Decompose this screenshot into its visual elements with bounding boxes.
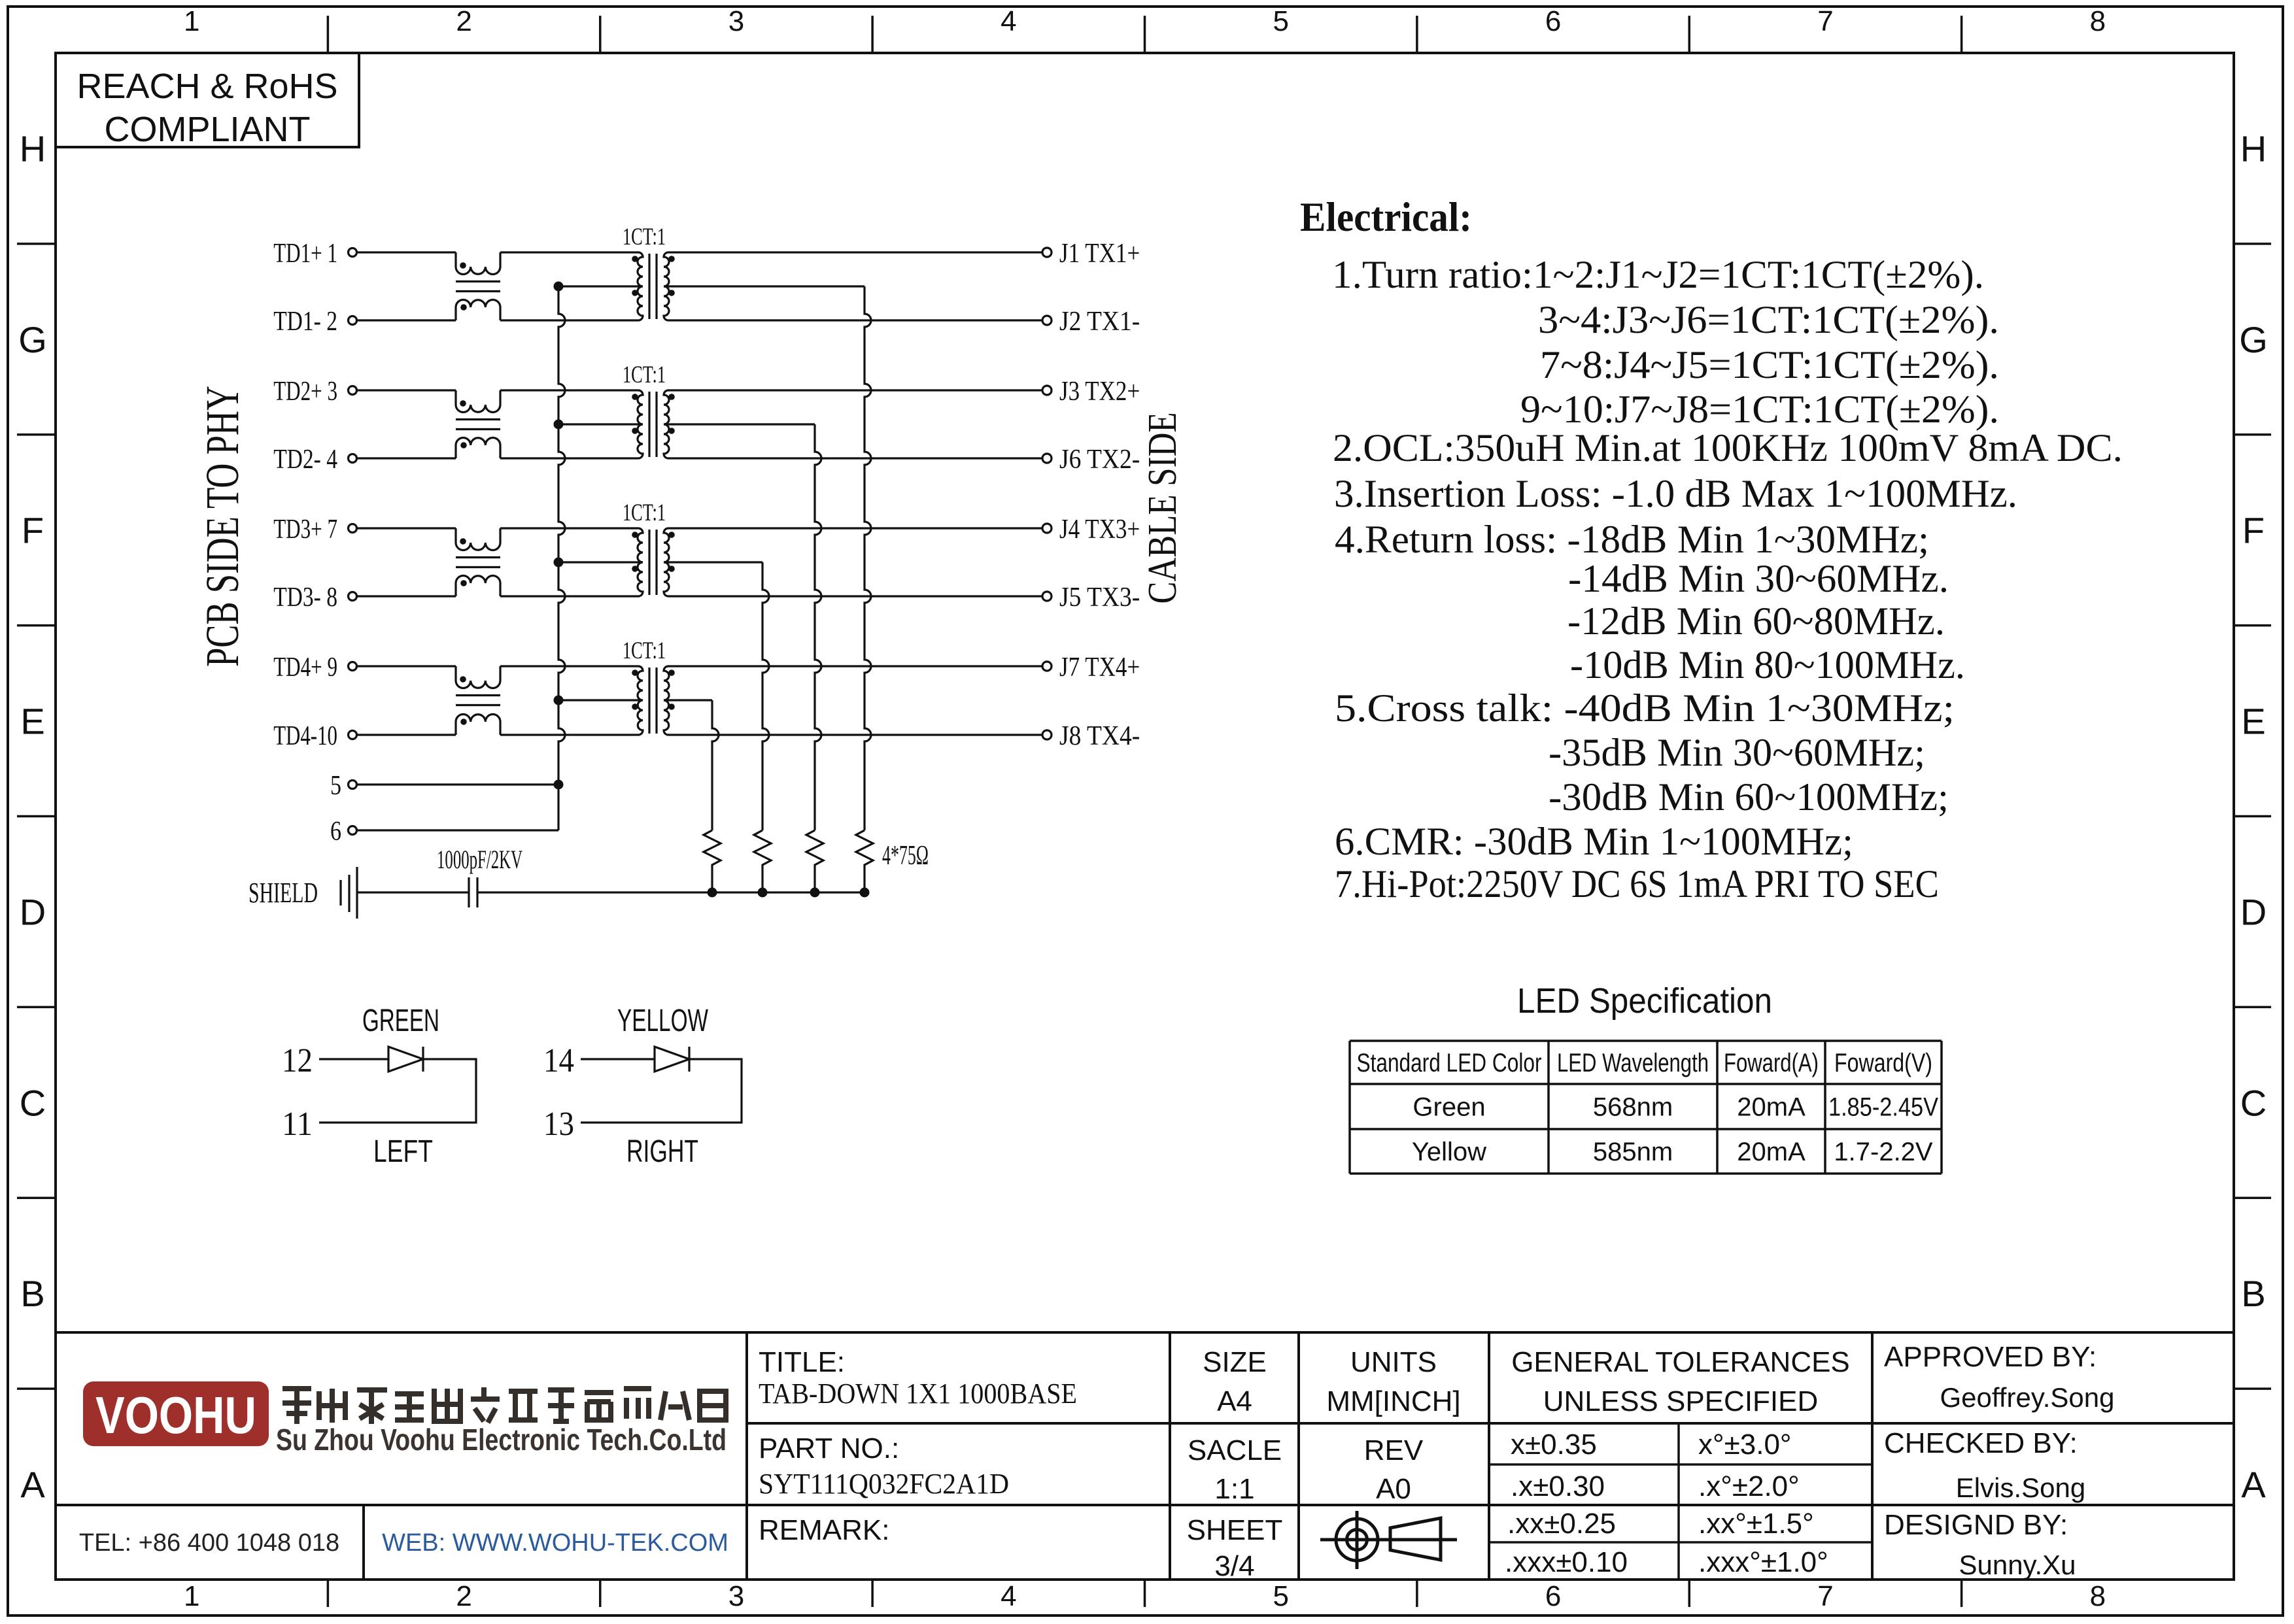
pin J7 TX4+ terminal (1042, 652, 1140, 683)
svg-text:Foward(V): Foward(V) (1834, 1049, 1932, 1077)
pin 6 terminal (330, 817, 357, 847)
resistor R1 75 ohm (856, 830, 873, 892)
svg-text:D: D (20, 891, 46, 932)
wire TD1+ 1 to choke L1 (357, 251, 456, 253)
VOOHU logo (83, 1381, 269, 1446)
wire choke L2 to transformer T2 primary top (500, 389, 638, 391)
svg-text:1: 1 (184, 5, 199, 37)
svg-text:3~4:J3~J6=1CT:1CT(±2%).: 3~4:J3~J6=1CT:1CT(±2%). (1538, 298, 1999, 341)
pin 5 terminal (330, 771, 357, 801)
svg-text:8: 8 (2090, 1580, 2106, 1612)
svg-text:Yellow: Yellow (1412, 1138, 1486, 1166)
SHIELD terminal symbol (248, 867, 357, 919)
label 4*75 ohm (882, 841, 929, 871)
junction dot pin5/bus (554, 780, 564, 790)
svg-text:4*75Ω: 4*75Ω (882, 841, 929, 871)
Electrical notes heading (1300, 194, 1472, 240)
pin J6 TX2- terminal (1042, 445, 1140, 475)
svg-text:1CT:1: 1CT:1 (623, 224, 666, 250)
REMARK cell (759, 1514, 889, 1546)
junction dot T2 primary CT / bus (554, 420, 564, 430)
svg-text:J6 TX2-: J6 TX2- (1059, 445, 1140, 475)
wire TD2- 4 to choke L2 (357, 457, 456, 459)
svg-text:COMPLIANT: COMPLIANT (104, 110, 310, 149)
junction dot T3 primary CT / bus (554, 558, 564, 567)
capacitor C1 1000pF/2KV (437, 845, 522, 907)
wire capacitor C1 to resistor bus (477, 891, 865, 893)
resistor R2 75 ohm (806, 830, 823, 892)
svg-text:7: 7 (1817, 1580, 1833, 1612)
resistor R4 75 ohm (704, 830, 721, 892)
svg-text:F: F (2242, 510, 2265, 551)
svg-text:SIZE: SIZE (1203, 1346, 1267, 1378)
pin TD2- 4 terminal (273, 445, 356, 475)
svg-text:.xx°±1.5°: .xx°±1.5° (1698, 1508, 1814, 1540)
svg-text:1:1: 1:1 (1214, 1473, 1254, 1505)
svg-text:LEFT: LEFT (373, 1134, 433, 1169)
column numbers 1-8 bottom (184, 1580, 2106, 1612)
svg-text:MM[INCH]: MM[INCH] (1326, 1385, 1460, 1417)
svg-text:TD1+ 1: TD1+ 1 (273, 239, 337, 269)
common-mode choke L2 (456, 390, 500, 458)
svg-text:Sunny.Xu: Sunny.Xu (1959, 1549, 2076, 1580)
pin 11 (282, 1106, 313, 1143)
svg-text:20mA: 20mA (1737, 1093, 1806, 1122)
svg-text:TEL: +86 400 1048 018: TEL: +86 400 1048 018 (79, 1529, 339, 1557)
pin J5 TX3- terminal (1042, 583, 1140, 613)
svg-text:E: E (20, 701, 44, 742)
wire T1 secondary center tap (664, 285, 865, 287)
pin J2 TX1- terminal (1042, 307, 1140, 337)
svg-text:TITLE:: TITLE: (759, 1346, 845, 1378)
svg-text:5: 5 (1273, 5, 1288, 37)
svg-text:J3 TX2+: J3 TX2+ (1059, 377, 1140, 407)
svg-text:DESIGND BY:: DESIGND BY: (1884, 1509, 2068, 1541)
wire yellow LED cathode loop to pin 13 (581, 1059, 742, 1123)
svg-text:D: D (2240, 891, 2267, 932)
svg-text:11: 11 (282, 1106, 313, 1143)
wire T2 secondary top to J3 (668, 389, 1042, 391)
TITLE cell (759, 1346, 1077, 1410)
svg-text:3: 3 (728, 5, 744, 37)
pin TD3+ 7 terminal (273, 515, 356, 545)
pin 13 (543, 1106, 574, 1143)
svg-text:WEB: WWW.WOHU-TEK.COM: WEB: WWW.WOHU-TEK.COM (382, 1529, 728, 1557)
company name (Chinese) (282, 1387, 726, 1424)
wire pin 12 to green LED (319, 1058, 388, 1060)
LED yellow label (617, 1004, 708, 1038)
TEL cell (79, 1529, 339, 1557)
pin 12 (282, 1042, 313, 1079)
wire transformer T3 primary center tap to bus (558, 561, 643, 563)
svg-text:4: 4 (1001, 5, 1016, 37)
APPROVED BY cell (1884, 1341, 2114, 1580)
REACH & RoHS COMPLIANT box (56, 53, 359, 149)
svg-text:H: H (20, 128, 46, 169)
svg-text:7.Hi-Pot:2250V DC 6S 1mA PRI T: 7.Hi-Pot:2250V DC 6S 1mA PRI TO SEC (1335, 862, 1939, 905)
junction dot R1/shield bus (860, 888, 870, 898)
svg-text:3: 3 (728, 1580, 744, 1612)
title block grid (56, 1332, 2234, 1580)
svg-text:20mA: 20mA (1737, 1138, 1806, 1166)
wire transformer T4 primary center tap to bus (558, 699, 643, 701)
wire TD4+ 9 to choke L4 (357, 665, 456, 667)
svg-text:CHECKED BY:: CHECKED BY: (1884, 1427, 2078, 1459)
svg-text:1CT:1: 1CT:1 (623, 362, 666, 388)
svg-text:x°±3.0°: x°±3.0° (1698, 1429, 1792, 1461)
svg-text:YELLOW: YELLOW (617, 1004, 708, 1038)
svg-text:1.7-2.2V: 1.7-2.2V (1834, 1138, 1933, 1166)
svg-text:1CT:1: 1CT:1 (623, 499, 666, 526)
svg-text:PART NO.:: PART NO.: (759, 1432, 899, 1464)
svg-text:APPROVED BY:: APPROVED BY: (1884, 1341, 2097, 1373)
svg-text:x±0.35: x±0.35 (1511, 1429, 1597, 1461)
svg-text:.x±0.30: .x±0.30 (1511, 1470, 1605, 1502)
svg-text:J1 TX1+: J1 TX1+ (1059, 239, 1140, 269)
svg-text:SYT111Q032FC2A1D: SYT111Q032FC2A1D (759, 1468, 1009, 1500)
svg-text:F: F (22, 510, 44, 551)
svg-text:A0: A0 (1376, 1473, 1411, 1505)
pin J8 TX4- terminal (1042, 721, 1140, 751)
svg-text:1.Turn ratio:1~2:J1~J2=1CT:1CT: 1.Turn ratio:1~2:J1~J2=1CT:1CT(±2%). (1332, 253, 1984, 296)
wire T3 secondary CT vertical to resistor (762, 562, 769, 830)
svg-text:-35dB Min 30~60MHz;: -35dB Min 30~60MHz; (1549, 731, 1925, 774)
pin 14 (543, 1042, 574, 1079)
LED Specification table (1350, 981, 1942, 1174)
svg-text:TD3+ 7: TD3+ 7 (273, 515, 337, 545)
junction dot R4/shield bus (708, 888, 717, 898)
wire T3 secondary center tap (664, 561, 762, 563)
junction dot T1 primary CT / bus (554, 282, 564, 292)
svg-text:Elvis.Song: Elvis.Song (1956, 1472, 2085, 1503)
wire pin 14 to yellow LED (581, 1058, 655, 1060)
row letters H-A right (2239, 128, 2268, 1505)
UNITS cell (1326, 1346, 1460, 1505)
svg-text:J8 TX4-: J8 TX4- (1059, 721, 1140, 751)
wire T4 secondary top to J7 (668, 665, 1042, 667)
svg-text:5.Cross talk: -40dB Min 1~30MH: 5.Cross talk: -40dB Min 1~30MHz; (1335, 686, 1955, 730)
svg-text:J7 TX4+: J7 TX4+ (1059, 652, 1140, 683)
svg-text:Green: Green (1412, 1093, 1485, 1122)
wire T1 secondary top to J1 (668, 251, 1042, 253)
row ticks left/right (17, 244, 2271, 1389)
svg-text:A4: A4 (1217, 1385, 1252, 1417)
svg-text:Electrical:: Electrical: (1300, 194, 1472, 240)
svg-text:J4 TX3+: J4 TX3+ (1059, 515, 1140, 545)
svg-text:6: 6 (330, 817, 341, 847)
wire T2 secondary CT vertical to resistor (815, 424, 821, 830)
junction dot T4 primary CT / bus (554, 696, 564, 705)
pin TD4-10 terminal (273, 721, 356, 751)
svg-text:B: B (20, 1273, 44, 1314)
svg-text:9~10:J7~J8=1CT:1CT(±2%).: 9~10:J7~J8=1CT:1CT(±2%). (1520, 388, 1999, 431)
transformer T4 1CT:1 (623, 637, 675, 735)
svg-text:.xxx±0.10: .xxx±0.10 (1505, 1546, 1628, 1578)
svg-text:H: H (2240, 128, 2267, 169)
wire TD1- 2 to choke L1 (357, 319, 456, 321)
wire T1 secondary CT vertical to resistor (865, 286, 871, 830)
pin J1 TX1+ terminal (1042, 239, 1140, 269)
wire TD4-10 to choke L4 (357, 734, 456, 736)
label CABLE SIDE (1140, 413, 1185, 604)
wire T4 secondary CT vertical to resistor (712, 700, 719, 830)
wire choke L3 to transformer T3 primary top (500, 527, 638, 529)
svg-text:6: 6 (1545, 5, 1561, 37)
GENERAL TOLERANCES cell (1505, 1346, 1850, 1578)
wire green LED cathode loop to pin 11 (319, 1059, 476, 1123)
wire shield to capacitor C1 (357, 891, 469, 893)
svg-text:J2 TX1-: J2 TX1- (1059, 307, 1140, 337)
svg-text:VOOHU: VOOHU (95, 1386, 256, 1444)
wire choke L1 to transformer T1 primary top (500, 251, 638, 253)
column numbers 1-8 top (184, 5, 2106, 37)
svg-text:REV: REV (1364, 1434, 1424, 1466)
svg-text:13: 13 (543, 1106, 574, 1143)
wire T4 secondary center tap (664, 699, 712, 701)
pin J3 TX2+ terminal (1042, 377, 1140, 407)
svg-text:C: C (20, 1082, 46, 1123)
pin J4 TX3+ terminal (1042, 515, 1140, 545)
wire choke L1 to transformer T1 primary bottom (500, 319, 638, 321)
svg-text:7: 7 (1817, 5, 1833, 37)
svg-text:SHEET: SHEET (1187, 1514, 1283, 1546)
svg-text:6.CMR: -30dB Min 1~100MHz;: 6.CMR: -30dB Min 1~100MHz; (1335, 820, 1853, 863)
svg-text:Standard LED Color: Standard LED Color (1357, 1049, 1542, 1077)
common-mode choke L1 (456, 252, 500, 320)
wire T3 secondary top to J4 (668, 527, 1042, 529)
junction dot R3/shield bus (758, 888, 768, 898)
LED green label (362, 1004, 439, 1038)
svg-text:3/4: 3/4 (1214, 1550, 1254, 1582)
pin TD1- 2 terminal (273, 307, 356, 337)
pin TD4+ 9 terminal (273, 652, 356, 683)
svg-text:PCB SIDE TO PHY: PCB SIDE TO PHY (196, 386, 248, 667)
resistor R3 75 ohm (754, 830, 771, 892)
svg-text:TD2- 4: TD2- 4 (273, 445, 337, 475)
svg-text:TD3- 8: TD3- 8 (273, 583, 337, 613)
wire choke L4 to transformer T4 primary bottom (500, 734, 638, 736)
wire transformer T1 primary center tap to bus (558, 285, 643, 287)
svg-text:REMARK:: REMARK: (759, 1514, 889, 1546)
wire TD3+ 7 to choke L3 (357, 527, 456, 529)
svg-text:-14dB Min 30~60MHz.: -14dB Min 30~60MHz. (1568, 557, 1949, 600)
row letters H-A left (18, 128, 47, 1505)
svg-text:REACH & RoHS: REACH & RoHS (77, 67, 337, 106)
svg-text:-12dB Min 60~80MHz.: -12dB Min 60~80MHz. (1567, 600, 1945, 643)
svg-text:.x°±2.0°: .x°±2.0° (1698, 1470, 1800, 1502)
svg-text:TD4+ 9: TD4+ 9 (273, 652, 337, 683)
wire primary center-tap bus (558, 286, 565, 830)
svg-text:E: E (2241, 701, 2265, 742)
svg-text:UNITS: UNITS (1350, 1346, 1437, 1378)
pin TD1+ 1 terminal (273, 239, 356, 269)
svg-text:-30dB Min 60~100MHz;: -30dB Min 60~100MHz; (1549, 775, 1949, 819)
svg-text:4.Return loss: -18dB Min 1~30M: 4.Return loss: -18dB Min 1~30MHz; (1335, 518, 1929, 561)
wire pin 5 to bus (357, 783, 558, 785)
svg-text:568nm: 568nm (1593, 1093, 1673, 1122)
svg-text:CABLE SIDE: CABLE SIDE (1140, 413, 1185, 604)
svg-text:-10dB Min 80~100MHz.: -10dB Min 80~100MHz. (1570, 643, 1965, 686)
svg-text:1.85-2.45V: 1.85-2.45V (1828, 1093, 1938, 1122)
pin TD3- 8 terminal (273, 583, 356, 613)
svg-text:Geoffrey.Song: Geoffrey.Song (1940, 1382, 2115, 1413)
svg-text:2: 2 (456, 1580, 471, 1612)
svg-text:G: G (2239, 319, 2268, 360)
svg-text:LED Specification: LED Specification (1517, 981, 1772, 1021)
svg-text:.xx±0.25: .xx±0.25 (1507, 1508, 1616, 1540)
svg-text:3.Insertion Loss: -1.0 dB Max: 3.Insertion Loss: -1.0 dB Max 1~100MHz. (1334, 472, 2017, 515)
svg-text:1CT:1: 1CT:1 (623, 637, 666, 664)
wire T2 secondary bottom to J6 (668, 457, 1042, 459)
svg-text:TD2+ 3: TD2+ 3 (273, 377, 337, 407)
svg-text:5: 5 (330, 771, 341, 801)
wire T4 secondary bottom to J8 (668, 734, 1042, 736)
svg-text:G: G (18, 319, 47, 360)
transformer T2 1CT:1 (623, 362, 675, 458)
wire pin 6 to bus (357, 829, 558, 831)
diode D1 green LED (388, 1047, 423, 1072)
wire transformer T2 primary center tap to bus (558, 423, 643, 425)
svg-text:6: 6 (1545, 1580, 1561, 1612)
wire TD3- 8 to choke L3 (357, 595, 456, 597)
svg-text:J5 TX3-: J5 TX3- (1059, 583, 1140, 613)
junction dot R2/shield bus (810, 888, 820, 898)
svg-text:A: A (20, 1464, 45, 1505)
svg-text:GENERAL TOLERANCES: GENERAL TOLERANCES (1511, 1346, 1850, 1378)
svg-text:2: 2 (456, 5, 471, 37)
pin TD2+ 3 terminal (273, 377, 356, 407)
PART NO cell (759, 1432, 1009, 1500)
LED left label (373, 1134, 433, 1169)
svg-text:1000pF/2KV: 1000pF/2KV (437, 845, 522, 874)
label PCB SIDE TO PHY (196, 386, 248, 667)
diode D2 yellow LED (655, 1047, 689, 1072)
svg-text:5: 5 (1273, 1580, 1288, 1612)
wire T3 secondary bottom to J5 (668, 595, 1042, 597)
svg-text:C: C (2240, 1082, 2267, 1123)
svg-text:585nm: 585nm (1593, 1138, 1673, 1166)
svg-text:2.OCL:350uH Min.at 100KHz 100m: 2.OCL:350uH Min.at 100KHz 100mV 8mA DC. (1333, 426, 2123, 469)
first angle projection symbol (1320, 1511, 1457, 1569)
svg-text:14: 14 (543, 1042, 574, 1079)
common-mode choke L3 (456, 528, 500, 596)
svg-text:8: 8 (2090, 5, 2106, 37)
LED right label (626, 1134, 698, 1169)
svg-text:Foward(A): Foward(A) (1724, 1049, 1819, 1077)
SIZE cell (1187, 1346, 1283, 1582)
svg-text:12: 12 (282, 1042, 313, 1079)
Electrical notes text (1332, 253, 2123, 905)
svg-text:TD1- 2: TD1- 2 (273, 307, 337, 337)
svg-text:UNLESS SPECIFIED: UNLESS SPECIFIED (1543, 1385, 1819, 1417)
svg-text:SACLE: SACLE (1188, 1434, 1282, 1466)
wire choke L2 to transformer T2 primary bottom (500, 457, 638, 459)
common-mode choke L4 (456, 666, 500, 735)
wire T2 secondary center tap (664, 423, 815, 425)
svg-text:RIGHT: RIGHT (626, 1134, 698, 1169)
transformer T3 1CT:1 (623, 499, 675, 596)
svg-text:TD4-10: TD4-10 (273, 721, 337, 751)
svg-text:A: A (2241, 1464, 2266, 1505)
company name (English) (276, 1423, 727, 1457)
svg-text:TAB-DOWN 1X1 1000BASE: TAB-DOWN 1X1 1000BASE (759, 1378, 1077, 1410)
svg-text:LED Wavelength: LED Wavelength (1557, 1049, 1709, 1077)
wire choke L4 to transformer T4 primary top (500, 665, 638, 667)
column ticks top/bottom (328, 16, 1961, 1607)
svg-text:B: B (2241, 1273, 2265, 1314)
svg-text:4: 4 (1001, 1580, 1016, 1612)
wire choke L3 to transformer T3 primary bottom (500, 595, 638, 597)
svg-text:7~8:J4~J5=1CT:1CT(±2%).: 7~8:J4~J5=1CT:1CT(±2%). (1540, 343, 1999, 386)
svg-text:1: 1 (184, 1580, 199, 1612)
svg-text:GREEN: GREEN (362, 1004, 439, 1038)
svg-text:SHIELD: SHIELD (248, 877, 318, 909)
svg-text:.xxx°±1.0°: .xxx°±1.0° (1698, 1546, 1828, 1578)
transformer T1 1CT:1 (623, 224, 675, 320)
wire TD2+ 3 to choke L2 (357, 389, 456, 391)
WEB cell (382, 1529, 728, 1557)
wire T1 secondary bottom to J2 (668, 319, 1042, 321)
svg-text:Su Zhou Voohu Electronic Tech.: Su Zhou Voohu Electronic Tech.Co.Ltd (276, 1423, 727, 1457)
